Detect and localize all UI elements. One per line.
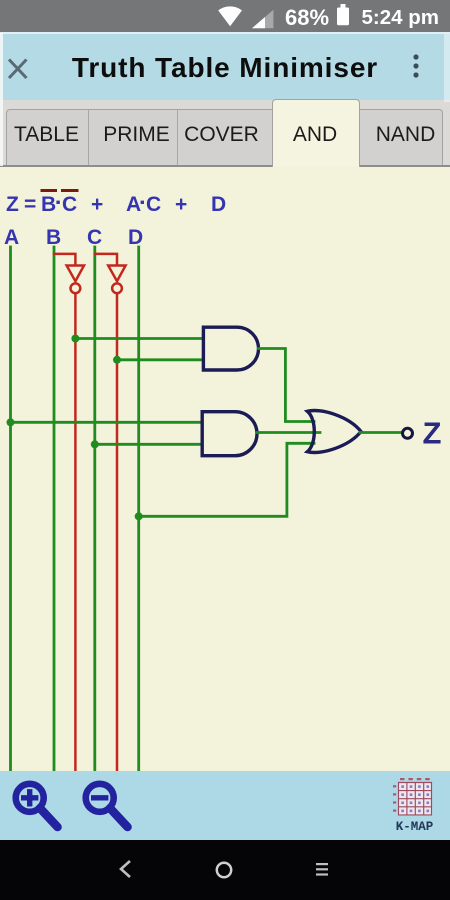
tab labels — [0, 124, 93, 146]
wire D to OR input — [139, 443, 314, 516]
tab divider 1 — [88, 110, 89, 165]
tab AND (selected) — [272, 99, 360, 168]
wire C to inverter U2 — [95, 254, 117, 265]
svg-text:+: + — [175, 193, 187, 216]
title bar — [0, 32, 450, 100]
wire A to AND2 input — [11, 421, 203, 424]
cellular icon — [252, 10, 273, 28]
svg-text:A: A — [126, 193, 141, 216]
wire OR output to Z — [360, 431, 402, 434]
output terminal Z — [403, 428, 413, 438]
navigation bar — [0, 840, 450, 900]
title text — [0, 52, 450, 84]
wire D vertical — [137, 247, 140, 771]
battery icon — [337, 8, 349, 26]
wire C vertical — [93, 247, 96, 771]
wire B to inverter U1 — [54, 254, 75, 265]
junction C to AND2 — [91, 440, 99, 448]
svg-text:C: C — [146, 193, 161, 216]
K-MAP button — [386, 776, 444, 836]
wifi icon — [218, 6, 242, 26]
wire C-bar vertical — [116, 294, 119, 772]
svg-text:+: + — [91, 193, 103, 216]
inverter U2 (C inverted) — [108, 266, 125, 294]
svg-text:C: C — [87, 226, 102, 249]
junction D to OR — [135, 512, 143, 520]
wire C-bar to AND1 input — [117, 358, 203, 361]
svg-text:C: C — [62, 193, 77, 216]
wire AND1 output to OR — [259, 349, 315, 422]
svg-text:K-MAP: K-MAP — [396, 820, 434, 834]
wire C to AND2 input — [95, 443, 202, 446]
and-gate U3 — [203, 327, 258, 370]
svg-text:Z: Z — [423, 416, 442, 451]
nav back icon — [116, 858, 136, 880]
nav home icon — [214, 860, 234, 880]
wire AND2 output to OR — [257, 431, 320, 434]
wire A vertical — [9, 247, 12, 771]
or-gate U5 — [307, 410, 361, 452]
tab divider 2 — [177, 110, 178, 165]
wire B vertical — [53, 247, 56, 771]
svg-text:=: = — [24, 193, 36, 216]
svg-text:Z: Z — [6, 193, 19, 216]
svg-text:B: B — [41, 193, 56, 216]
junction C-bar to AND1 — [113, 356, 121, 364]
zoom-out button — [80, 778, 135, 836]
zoom-in button — [10, 778, 65, 836]
left light edge — [0, 33, 3, 166]
close (X) icon — [7, 57, 29, 79]
svg-text:D: D — [211, 193, 226, 216]
wire B-bar vertical — [74, 294, 77, 772]
tab bar — [0, 100, 450, 165]
nav menu icon — [315, 862, 329, 877]
overflow menu (vertical ellipsis) — [410, 52, 422, 82]
status bar — [0, 0, 450, 32]
svg-text:A: A — [4, 226, 19, 249]
junction A to AND2 — [7, 418, 15, 426]
wire B-bar to AND1 input — [75, 337, 203, 340]
tab bottom shadow line — [0, 165, 450, 167]
svg-text:D: D — [128, 226, 143, 249]
equation label Z = B&#772;&#183;C&#772; + A&#183;C + D — [6, 189, 226, 216]
inverter U1 (B inverted) — [67, 266, 84, 294]
right light edge (title bar) — [444, 34, 450, 102]
bottom toolbar — [0, 771, 450, 840]
circuit canvas — [0, 167, 450, 772]
and-gate U4 — [202, 412, 257, 456]
tab strip base — [6, 109, 443, 166]
svg-text:B: B — [46, 226, 61, 249]
junction B-bar to AND1 — [71, 335, 79, 343]
